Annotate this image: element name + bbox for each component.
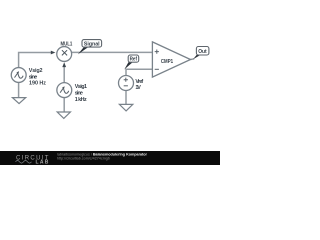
svg-text:1 V: 1 V [135,85,141,91]
svg-text:CMP1: CMP1 [161,59,173,65]
flag Signal [78,40,102,55]
wire CMP1 output [191,58,195,61]
wire Vsig2 to ground [18,83,20,98]
wire Ref net Vref to CMP1 [126,69,152,75]
svg-text:Signal: Signal [84,42,100,48]
svg-text:http://circuitlab.com/c/4274cm: http://circuitlab.com/c/4274cmgb [57,156,110,160]
multiplier MUL1 [57,47,72,62]
svg-text:sine: sine [75,91,83,97]
svg-text:LAB: LAB [36,160,50,165]
voltage source Vsig1 [57,83,72,98]
label Vsig2 values [29,68,47,87]
footer bar [0,151,220,165]
svg-text:1 kHz: 1 kHz [75,97,87,103]
svg-text:MUL1: MUL1 [61,41,73,47]
ground for Vsig1 [57,112,70,118]
CircuitLab logo [16,155,50,165]
wire Vsig1 to ground [63,98,65,112]
svg-text:Vsig1: Vsig1 [75,84,87,90]
ground for Vsig2 [12,98,25,104]
svg-text:Out: Out [198,49,207,55]
wire Vsig2 to MUL1 [19,53,51,68]
svg-text:Vref: Vref [135,79,143,85]
label Vref values [135,79,143,91]
op-amp comparator CMP1 [152,42,190,77]
voltage source Vref [119,76,134,91]
voltage source Vsig2 [11,68,26,83]
ground for Vref [119,104,132,111]
flag Out [193,47,209,60]
flag Ref [124,55,138,70]
wire Vsig1 to MUL1 [63,67,65,83]
arrow into MUL1 left input [51,51,56,55]
label Vsig1 values [75,84,87,103]
arrow into MUL1 bottom input [62,62,66,67]
svg-text:Ref: Ref [130,57,138,63]
wire Vref to ground [125,91,127,105]
svg-text:190 Hz: 190 Hz [29,80,46,86]
svg-text:Vsig2: Vsig2 [29,68,43,74]
wire Signal net MUL1 to CMP1 [72,51,153,53]
